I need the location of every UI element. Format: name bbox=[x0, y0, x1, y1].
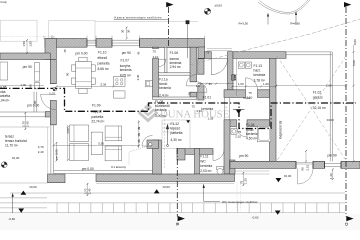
svg-text:±0,00: ±0,00 bbox=[215, 3, 223, 7]
section line D bbox=[345, 7, 347, 217]
glass south living bbox=[54, 171, 153, 174]
level marker garage strip bbox=[275, 211, 281, 215]
svg-text:konyha: konyha bbox=[120, 64, 131, 68]
svg-text:2,40: 2,40 bbox=[38, 150, 44, 154]
svg-text:Gépkocsi tár: Gépkocsi tár bbox=[279, 120, 283, 139]
dim vline right edge bbox=[353, 45, 355, 161]
small arrow strip left bbox=[12, 197, 14, 214]
sofa bottom bbox=[105, 146, 122, 161]
dim line dining 5,36 bbox=[57, 85, 114, 87]
svg-text:WC: WC bbox=[200, 159, 206, 163]
leader WC szellozes bbox=[204, 188, 220, 202]
wall jog ne of kamra block bbox=[198, 47, 205, 58]
svg-text:kerámia: kerámia bbox=[155, 108, 167, 112]
partition kamra west bbox=[165, 47, 168, 72]
svg-text:2,10: 2,10 bbox=[49, 92, 55, 96]
window north 1 bbox=[87, 40, 96, 46]
section line B top bbox=[168, 7, 170, 47]
stairs F1.12 bbox=[162, 112, 190, 168]
door hall west arc bbox=[186, 74, 198, 86]
flag D bottom bbox=[346, 216, 353, 221]
svg-text:±0,00: ±0,00 bbox=[29, 185, 37, 189]
tv wall unit 1 bbox=[70, 125, 89, 142]
svg-text:1,50: 1,50 bbox=[29, 41, 33, 47]
svg-text:2,40: 2,40 bbox=[88, 188, 92, 194]
paving joints bbox=[57, 203, 340, 213]
kitchen counter upper bbox=[114, 76, 126, 86]
door f1.13 arc bbox=[246, 78, 258, 90]
wall wc west bbox=[195, 149, 200, 175]
dim vline top kitchen bbox=[126, 27, 128, 39]
garage door jambs bbox=[296, 162, 313, 169]
small circle marker nw bbox=[51, 36, 53, 38]
wall sw stub bbox=[48, 174, 66, 183]
svg-text:2,94 m²: 2,94 m² bbox=[170, 65, 182, 69]
svg-text:2,10: 2,10 bbox=[306, 165, 310, 171]
corridor east thin lines bbox=[225, 98, 230, 120]
svg-text:30: 30 bbox=[121, 29, 125, 33]
top wall dim ticks bbox=[44, 36, 205, 40]
window jambs north bbox=[87, 40, 140, 47]
svg-text:pm 90: pm 90 bbox=[328, 153, 337, 157]
watermark diamond logo bbox=[138, 104, 159, 123]
svg-text:R=6,80: R=6,80 bbox=[290, 21, 300, 25]
svg-text:parketta: parketta bbox=[171, 131, 183, 135]
svg-text:pm 0,00: pm 0,00 bbox=[55, 149, 59, 160]
svg-text:F1.10: F1.10 bbox=[98, 50, 107, 54]
svg-text:1,00: 1,00 bbox=[20, 83, 26, 87]
svg-text:R=3,50: R=3,50 bbox=[239, 21, 249, 25]
chair left 1 bbox=[72, 65, 76, 71]
bottom paving strip bbox=[0, 193, 345, 213]
sofa left vertical bbox=[91, 132, 102, 155]
svg-text:pm 90: pm 90 bbox=[239, 154, 248, 158]
svg-text:±0,00: ±0,00 bbox=[284, 174, 292, 178]
glass west living bbox=[51, 125, 54, 174]
sofa top bbox=[105, 126, 122, 141]
survey point top bbox=[204, 8, 210, 14]
svg-text:4,30 m²: 4,30 m² bbox=[171, 138, 183, 142]
dim vline pm west bbox=[56, 142, 58, 161]
svg-text:pm 0,00: pm 0,00 bbox=[82, 167, 94, 171]
door bathroom arc bbox=[237, 127, 248, 138]
svg-text:11,70 m²: 11,70 m² bbox=[5, 143, 19, 147]
svg-text:arketta: arketta bbox=[0, 94, 10, 98]
window north 2 bbox=[112, 40, 140, 46]
door wc arc bbox=[213, 150, 224, 161]
level marker below living bbox=[154, 189, 160, 193]
svg-text:®: ® bbox=[225, 106, 228, 110]
svg-text:75: 75 bbox=[238, 130, 242, 134]
wall lines west room below bbox=[34, 92, 37, 112]
flag D top bbox=[344, 2, 351, 7]
west room south thin lines bbox=[0, 112, 45, 117]
svg-text:1,20: 1,20 bbox=[243, 178, 247, 184]
dryer f1.13 bbox=[245, 62, 251, 68]
chair bottom bbox=[79, 89, 87, 94]
hob circles bbox=[116, 79, 123, 85]
svg-text:95: 95 bbox=[209, 82, 213, 86]
partition corridor north bbox=[153, 97, 197, 100]
wall living-corridor bbox=[153, 140, 162, 174]
chair left 2 bbox=[72, 78, 76, 84]
svg-text:±0,00: ±0,00 bbox=[327, 118, 335, 122]
wall west mid vertical bbox=[45, 60, 56, 125]
terrace outline bottom bbox=[0, 182, 48, 184]
south band lower line bbox=[96, 182, 235, 184]
svg-text:F1.13: F1.13 bbox=[254, 64, 263, 68]
svg-text:F1.12: F1.12 bbox=[171, 122, 180, 126]
svg-text:F1.07: F1.07 bbox=[121, 59, 130, 63]
survey point terrace bbox=[1, 162, 7, 168]
cabinet west room bbox=[35, 82, 40, 89]
svg-text:8,66 m²: 8,66 m² bbox=[98, 67, 110, 71]
bottom subtle shade bbox=[0, 214, 360, 230]
f1.13 west finish line bbox=[236, 58, 238, 96]
svg-text:F1.04: F1.04 bbox=[246, 123, 255, 127]
svg-text:terasz burkolat: terasz burkolat bbox=[5, 139, 27, 143]
svg-text:90: 90 bbox=[300, 167, 304, 171]
svg-text:kerámia: kerámia bbox=[200, 164, 212, 168]
door tarolo arc bbox=[197, 82, 207, 92]
svg-text:étkező: étkező bbox=[98, 56, 108, 60]
svg-text:DUNA HOUSE: DUNA HOUSE bbox=[160, 108, 230, 120]
svg-text:2,03 m²: 2,03 m² bbox=[200, 169, 212, 173]
entry exterior step bbox=[207, 49, 232, 51]
leader Kamra szellozes bbox=[114, 18, 168, 20]
dim line garage 1,05 bbox=[276, 85, 346, 87]
bathroom washbasin bbox=[231, 129, 237, 135]
svg-text:4,50: 4,50 bbox=[66, 128, 70, 134]
washer f1.13 bbox=[238, 62, 244, 68]
window garage south bbox=[325, 163, 342, 166]
svg-text:garázs: garázs bbox=[313, 96, 323, 100]
dim line entry 90 bbox=[198, 83, 234, 85]
svg-text:F1.11: F1.11 bbox=[200, 155, 208, 159]
wall west band bbox=[0, 53, 50, 60]
svg-text:2,4 m²: 2,4 m² bbox=[159, 94, 169, 98]
bathtub bbox=[257, 126, 271, 142]
svg-text:1,96: 1,96 bbox=[233, 74, 237, 80]
garage east thin wall bbox=[330, 52, 332, 161]
svg-text:2,10: 2,10 bbox=[247, 95, 253, 99]
svg-text:32,16 m²: 32,16 m² bbox=[313, 106, 327, 110]
door stairs arc bbox=[142, 136, 153, 147]
level marker strip left down bbox=[18, 209, 24, 213]
kitchen counter lower bbox=[114, 91, 126, 98]
svg-text:±0,00: ±0,00 bbox=[12, 156, 20, 160]
gate leader square bbox=[187, 24, 189, 58]
bed west edge bbox=[0, 62, 8, 80]
wall south garage segs bbox=[230, 161, 360, 168]
dim line bath 1,00 bbox=[232, 85, 276, 87]
wall wc north bbox=[177, 149, 213, 155]
svg-text:8,80: 8,80 bbox=[353, 39, 357, 45]
dimension tick slashes bbox=[24, 27, 354, 197]
wall nw corner pillar bbox=[45, 39, 56, 60]
svg-text:30: 30 bbox=[137, 126, 141, 130]
svg-text:90: 90 bbox=[33, 100, 37, 104]
svg-text:pm 0,00: pm 0,00 bbox=[76, 52, 88, 56]
wardrobe west room bbox=[35, 63, 40, 82]
svg-text:3,00 m²: 3,00 m² bbox=[155, 114, 167, 118]
terrace outline top bbox=[0, 126, 50, 128]
dim vline left bottom bbox=[24, 112, 26, 130]
svg-text:45: 45 bbox=[63, 49, 67, 53]
svg-text:90: 90 bbox=[65, 72, 69, 76]
level marker garage door bbox=[276, 178, 282, 182]
level marker hall bbox=[233, 110, 245, 117]
svg-text:parketta: parketta bbox=[91, 115, 103, 119]
survey point door west bbox=[53, 87, 57, 91]
dotted projection lines bath window bbox=[237, 182, 241, 210]
section line B bottom bbox=[176, 148, 178, 217]
svg-text:2,30: 2,30 bbox=[136, 74, 140, 80]
kitchen sink bbox=[145, 80, 152, 86]
svg-text:pm 90: pm 90 bbox=[23, 65, 32, 69]
wall stair south block bbox=[177, 149, 185, 161]
dashed boundary diagonal bbox=[190, 19, 360, 65]
svg-text:1,20: 1,20 bbox=[329, 173, 333, 179]
roof dotted hidden line bbox=[0, 35, 56, 37]
svg-text:házt.: házt. bbox=[254, 69, 261, 73]
dim vline left 4,50 bbox=[67, 125, 69, 160]
svg-text:,04 m²: ,04 m² bbox=[0, 98, 10, 102]
svg-text:75: 75 bbox=[153, 49, 157, 53]
wall f1.13 south segs bbox=[224, 90, 270, 98]
wall east house bbox=[270, 58, 277, 161]
svg-text:kerámia: kerámia bbox=[120, 68, 132, 72]
dim vline strip 2,70 bbox=[87, 183, 89, 196]
svg-text:kerámia: kerámia bbox=[254, 73, 266, 77]
dining table bbox=[76, 61, 92, 88]
svg-text:8,05 m²: 8,05 m² bbox=[120, 74, 132, 78]
svg-text:75: 75 bbox=[206, 51, 210, 55]
dim vline top left bbox=[26, 40, 28, 53]
dim vline living 30s bbox=[138, 120, 140, 148]
wall entry north left jamb bbox=[205, 52, 212, 59]
stair arrow bbox=[166, 125, 168, 147]
wall f1.13 north bbox=[233, 52, 286, 59]
pier entry wall bbox=[232, 75, 236, 81]
garage north thin wall bbox=[286, 52, 332, 55]
svg-text:5,36: 5,36 bbox=[101, 83, 107, 87]
svg-text:90: 90 bbox=[188, 92, 192, 96]
svg-text:F1.09: F1.09 bbox=[92, 103, 101, 107]
wall bathroom north segs bbox=[225, 120, 270, 127]
chair right 2 bbox=[91, 78, 95, 84]
door entry arc bbox=[211, 59, 227, 75]
level marker stairs corridor bbox=[186, 120, 190, 123]
svg-text:1,05: 1,05 bbox=[208, 117, 214, 121]
leader K1 kemeny dotted bbox=[129, 146, 148, 165]
svg-text:1,00: 1,00 bbox=[238, 82, 244, 86]
svg-text:45: 45 bbox=[137, 51, 141, 55]
wc toilet bbox=[217, 167, 224, 170]
svg-text:i hely: i hely bbox=[0, 0, 7, 4]
level marker strip left up bbox=[21, 191, 27, 195]
svg-text:±0,00: ±0,00 bbox=[163, 185, 171, 189]
svg-text:75: 75 bbox=[192, 105, 196, 109]
svg-text:K1 kémény: K1 kémény bbox=[111, 165, 126, 169]
svg-text:F1.02: F1.02 bbox=[313, 91, 322, 95]
svg-text:22,74 m²: 22,74 m² bbox=[91, 120, 105, 124]
partition kamra-tarolo bbox=[159, 73, 191, 76]
chair top bbox=[79, 57, 87, 61]
terrace east edge bbox=[47, 127, 49, 174]
svg-text:parketta: parketta bbox=[98, 62, 110, 66]
svg-text:2,40: 2,40 bbox=[26, 121, 30, 127]
dim line left room bbox=[0, 85, 44, 87]
terrace steps left bbox=[0, 198, 47, 208]
svg-text:pm 90: pm 90 bbox=[122, 51, 131, 55]
door kamra arc bbox=[159, 59, 167, 66]
svg-text:1,0: 1,0 bbox=[196, 84, 200, 88]
wall kitchen east bbox=[153, 47, 159, 97]
svg-text:Kamra mesterséges szellőzés: Kamra mesterséges szellőzés bbox=[115, 15, 163, 19]
svg-text:kerámia: kerámia bbox=[159, 86, 171, 90]
svg-text:terasz: terasz bbox=[5, 135, 14, 139]
svg-text:2,10: 2,10 bbox=[197, 109, 203, 113]
svg-text:90: 90 bbox=[200, 82, 204, 86]
svg-text:nappali: nappali bbox=[91, 109, 102, 113]
wall south wc block bbox=[96, 174, 235, 182]
porch lines below bathroom bbox=[235, 171, 270, 174]
svg-text:lépcső: lépcső bbox=[171, 127, 181, 131]
section line A-A stepped bbox=[0, 88, 356, 128]
svg-text:F1.06: F1.06 bbox=[170, 51, 179, 55]
chimney flue circle bbox=[149, 143, 152, 146]
wall hall west bbox=[198, 59, 204, 100]
svg-text:F1.01: F1.01 bbox=[203, 95, 212, 99]
svg-text:2,10: 2,10 bbox=[153, 55, 159, 59]
chimney K1 bbox=[147, 140, 159, 149]
svg-text:1,50: 1,50 bbox=[22, 41, 26, 47]
wall north segment 3 bbox=[140, 39, 205, 48]
svg-text:30: 30 bbox=[127, 29, 131, 33]
door garage arc bbox=[298, 169, 314, 185]
svg-text:1,00: 1,00 bbox=[263, 82, 269, 86]
svg-text:5,36: 5,36 bbox=[98, 142, 104, 146]
wall north segment 2 bbox=[96, 39, 112, 48]
leader R=3,50 bbox=[267, 16, 269, 25]
dim vline wc 75 bbox=[242, 172, 244, 186]
svg-text:90: 90 bbox=[29, 84, 33, 88]
door west living arc bbox=[41, 94, 57, 110]
garage cross dashed bbox=[277, 56, 346, 161]
svg-text:2,79: 2,79 bbox=[38, 145, 44, 149]
dim vline garage window bbox=[332, 169, 334, 181]
wall bathroom west / wc east bbox=[224, 120, 230, 174]
chair right 1 bbox=[91, 65, 95, 71]
stair break dashed bbox=[164, 112, 166, 168]
tv wall unit 2 bbox=[70, 144, 89, 161]
leader R=6,80 bbox=[295, 15, 297, 25]
flag B top bbox=[166, 2, 173, 7]
roof outline rect left bbox=[1, 20, 38, 41]
dim line living 5,36 bbox=[54, 144, 139, 146]
wall entry east / f1.13 west bbox=[228, 52, 234, 96]
svg-text:4,50 m²: 4,50 m² bbox=[246, 136, 258, 140]
svg-text:kerámia: kerámia bbox=[201, 107, 213, 111]
flag B bottom bbox=[178, 216, 185, 221]
garage door sill bbox=[296, 163, 313, 165]
svg-text:WC mesterséges szellőzés: WC mesterséges szellőzés bbox=[222, 200, 258, 204]
svg-text:5,00: 5,00 bbox=[352, 60, 356, 66]
wall taroló east bbox=[190, 47, 197, 97]
driveway curved wall bbox=[258, 0, 310, 14]
roof outline rect right bbox=[48, 21, 95, 42]
wall junction bath-garage bbox=[230, 160, 236, 174]
wall north segment 1 bbox=[45, 39, 87, 48]
svg-text:2,10: 2,10 bbox=[235, 135, 241, 139]
svg-text:30: 30 bbox=[137, 133, 141, 137]
